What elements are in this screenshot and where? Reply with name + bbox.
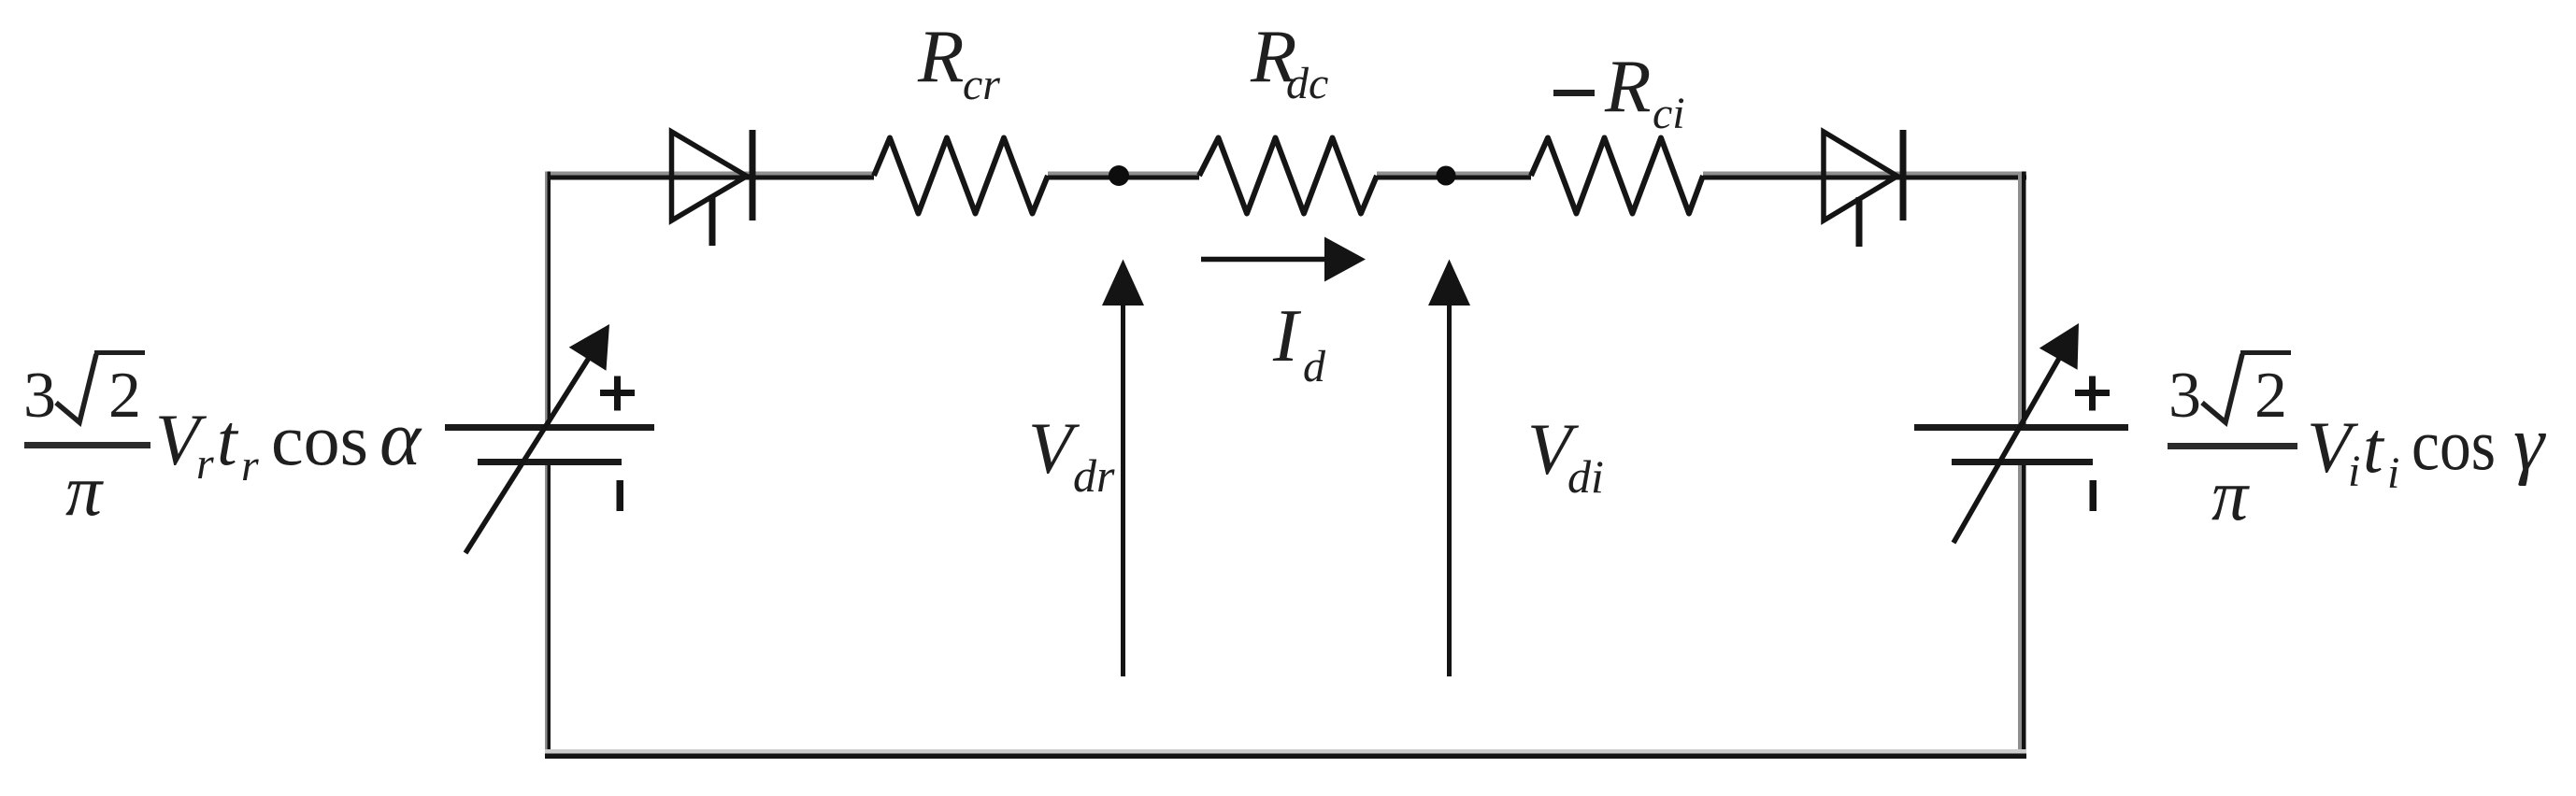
svg-text:π: π	[2211, 454, 2250, 535]
svg-text:2: 2	[108, 360, 141, 432]
wire top left segment	[547, 172, 874, 180]
voltage arrow Vdi	[1428, 260, 1470, 677]
svg-text:dc: dc	[1286, 59, 1328, 108]
svg-text:ci: ci	[1653, 89, 1685, 138]
svg-text:cos: cos	[2411, 404, 2496, 485]
svg-text:I: I	[1272, 293, 1302, 377]
svg-text:dr: dr	[1073, 449, 1115, 502]
resistor -Rci	[1531, 138, 1703, 214]
svg-text:di: di	[1567, 450, 1604, 503]
source E rectifier top plate	[445, 424, 654, 431]
label Rcr	[917, 14, 1000, 109]
node dot right	[1437, 166, 1456, 186]
label Id	[1272, 293, 1326, 391]
thyristor V2 inverter side	[1824, 130, 1907, 247]
svg-text:cos: cos	[271, 399, 368, 480]
source E rectifier plus sign	[600, 377, 635, 411]
svg-text:i: i	[2387, 448, 2399, 498]
source E inverter variability arrow	[1953, 323, 2079, 543]
label Vdr	[1028, 407, 1115, 502]
label -Rci	[1553, 44, 1685, 138]
wire right vertical lower	[2018, 464, 2026, 759]
svg-text:R: R	[1604, 44, 1651, 128]
svg-text:t: t	[217, 399, 239, 480]
source E inverter top plate	[1914, 424, 2128, 431]
node dot left	[1109, 165, 1129, 186]
wire bottom	[545, 749, 2026, 759]
svg-text:3: 3	[2168, 360, 2201, 432]
voltage arrow Vdr	[1102, 260, 1144, 677]
resistor Rdc	[1199, 138, 1377, 214]
source E inverter bottom plate	[1952, 459, 2093, 465]
source E inverter minus tick	[2090, 480, 2097, 511]
label Vdi	[1527, 408, 1604, 503]
source E rectifier variability arrow	[465, 324, 609, 553]
svg-text:γ: γ	[2513, 400, 2546, 487]
label Rdc	[1250, 14, 1328, 108]
wire left vertical lower	[545, 464, 551, 759]
svg-text:t: t	[2363, 406, 2385, 488]
svg-text:cr: cr	[963, 60, 1000, 109]
svg-text:3: 3	[23, 360, 56, 432]
svg-text:i: i	[2348, 447, 2360, 496]
wire top middle-left segment	[1048, 172, 1199, 180]
thyristor V1 rectifier side	[672, 130, 756, 246]
svg-text:r: r	[196, 439, 214, 489]
wire top right segment	[1703, 172, 2026, 180]
wire top middle-right segment	[1377, 172, 1531, 180]
label formula rectifier EMF 3sqrt2/pi Vr tr cos alpha	[23, 353, 422, 532]
svg-text:α: α	[379, 395, 422, 482]
svg-text:π: π	[65, 449, 104, 531]
svg-text:R: R	[917, 14, 964, 98]
svg-text:2: 2	[2254, 360, 2287, 432]
wire right vertical upper	[2018, 172, 2026, 425]
svg-text:r: r	[241, 441, 259, 490]
resistor Rcr	[874, 138, 1048, 214]
current arrow Id	[1201, 237, 1366, 282]
svg-text:d: d	[1303, 342, 1326, 391]
source E inverter plus sign	[2075, 377, 2110, 411]
wire left vertical upper	[545, 172, 551, 425]
label formula inverter EMF 3sqrt2/pi Vi ti cos gamma	[2168, 353, 2546, 536]
source E rectifier minus tick	[617, 480, 624, 511]
source E rectifier bottom plate	[478, 459, 622, 465]
